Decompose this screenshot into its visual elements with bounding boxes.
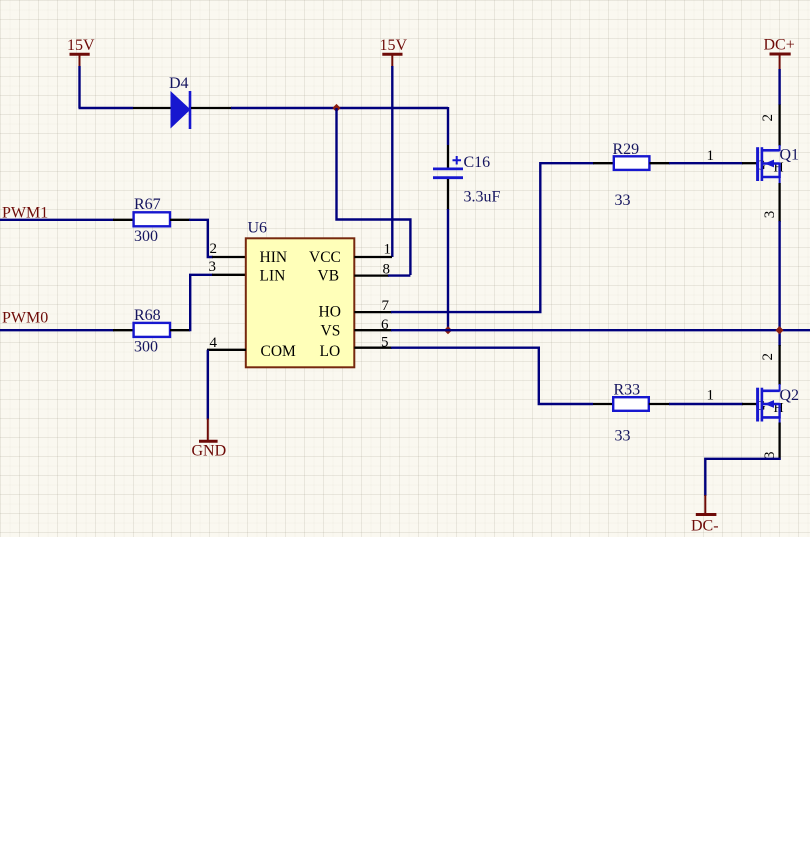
- wire 15V stem to top rail: [78, 66, 80, 108]
- wire Q2 drain stub: [779, 384, 781, 392]
- svg-text:6: 6: [381, 317, 389, 333]
- svg-text:2: 2: [760, 114, 776, 122]
- svg-text:2: 2: [210, 241, 218, 257]
- svg-text:4: 4: [210, 335, 218, 351]
- wire DC+ to Q1 drain pin: [778, 69, 780, 105]
- pin D4 cathode: [191, 107, 232, 109]
- pin R29 right: [649, 162, 670, 164]
- wire COM to GND: [207, 350, 209, 420]
- svg-text:300: 300: [134, 228, 158, 245]
- pin 6 VS: [354, 329, 392, 331]
- wire C16 to VS rail: [447, 209, 449, 330]
- wire Q2 source stub: [779, 417, 781, 423]
- pin R33 left: [593, 403, 614, 405]
- svg-text:3: 3: [762, 211, 778, 219]
- svg-text:LIN: LIN: [260, 268, 286, 285]
- svg-text:R33: R33: [614, 382, 641, 399]
- svg-text:D4: D4: [169, 75, 189, 92]
- svg-text:7: 7: [382, 298, 390, 314]
- wire Q1 source to VS rail: [778, 221, 780, 346]
- pin Q2 gate: [742, 403, 757, 405]
- svg-text:R67: R67: [134, 196, 161, 213]
- svg-text:8: 8: [383, 261, 391, 277]
- transistor Q1: [758, 147, 780, 181]
- pin R68 left: [113, 329, 134, 331]
- svg-text:Q1: Q1: [780, 147, 800, 164]
- svg-text:1: 1: [707, 148, 715, 164]
- diode D4: [171, 91, 191, 129]
- svg-text:5: 5: [381, 334, 389, 350]
- svg-text:VCC: VCC: [309, 249, 341, 266]
- resistor R33: [613, 397, 649, 411]
- svg-text:15V: 15V: [67, 37, 95, 54]
- pin 5 LO: [354, 347, 392, 349]
- wire Q1 source stub: [779, 177, 781, 184]
- pin 3 Q1 source: [778, 183, 780, 222]
- svg-text:300: 300: [134, 339, 158, 356]
- pin R67 left: [113, 219, 134, 221]
- wire top rail to C16 corner: [231, 107, 448, 109]
- wire R67 to HIN pin: [189, 220, 213, 257]
- svg-text:HIN: HIN: [260, 249, 288, 266]
- capacitor C16: [433, 156, 463, 178]
- pin C16 negative: [447, 179, 449, 210]
- svg-text:3.3uF: 3.3uF: [464, 189, 501, 206]
- wire PWM1 to R67: [0, 219, 114, 221]
- svg-text:2: 2: [760, 353, 776, 361]
- pin 4 COM: [207, 349, 246, 351]
- power 15V (left): [67, 37, 95, 67]
- svg-text:R68: R68: [134, 307, 161, 324]
- wire C16 top lead: [447, 107, 449, 145]
- junction node VB rail: [332, 104, 340, 112]
- pin 2 Q1 drain: [778, 105, 780, 147]
- wire Q1 drain stub: [779, 145, 781, 151]
- wire R33 to Q2 gate: [669, 403, 743, 405]
- pin 2 HIN: [212, 256, 246, 258]
- wire VB to corner: [388, 274, 410, 276]
- wire 15V to VCC pin 1: [391, 66, 393, 257]
- pin R29 left: [593, 162, 614, 164]
- pin R67 right: [170, 219, 190, 221]
- junction node VS/C16: [444, 326, 452, 334]
- wire Q2 source to DC-: [705, 459, 780, 496]
- junction node VS/phase: [775, 326, 783, 334]
- pin 8 VB: [354, 274, 389, 276]
- power DC-: [691, 495, 719, 535]
- pin D4 anode: [133, 107, 171, 109]
- svg-text:C16: C16: [464, 154, 491, 171]
- svg-text:COM: COM: [261, 343, 297, 360]
- wire top rail left of D4: [79, 107, 134, 109]
- transistor Q2: [758, 388, 780, 422]
- svg-text:R29: R29: [613, 141, 640, 158]
- pin Q1 gate: [742, 162, 757, 164]
- svg-text:HO: HO: [319, 304, 341, 321]
- wire PWM0 to R68: [0, 329, 114, 331]
- pin 7 HO: [354, 311, 392, 313]
- svg-text:VB: VB: [318, 268, 340, 285]
- IC U6 body: [246, 238, 354, 367]
- pin 3 Q2 source: [778, 423, 780, 460]
- svg-text:DC+: DC+: [764, 37, 795, 54]
- resistor R68: [134, 323, 170, 337]
- svg-text:15V: 15V: [380, 37, 408, 54]
- pin 3 LIN: [212, 274, 246, 276]
- svg-text:GND: GND: [192, 443, 227, 460]
- svg-text:1: 1: [707, 388, 715, 404]
- svg-text:PWM0: PWM0: [2, 310, 48, 327]
- wire VS rail to right edge: [391, 329, 810, 331]
- resistor R67: [134, 212, 170, 226]
- pin C16 positive: [447, 145, 449, 168]
- svg-text:LO: LO: [320, 343, 341, 360]
- power 15V (second): [380, 37, 408, 67]
- wire R29 to Q1 gate: [669, 162, 743, 164]
- svg-text:3: 3: [209, 259, 217, 275]
- pin R33 right: [649, 403, 670, 405]
- pin R68 right: [170, 329, 190, 331]
- resistor R29: [614, 156, 650, 170]
- pin 2 Q2 drain: [778, 345, 780, 385]
- svg-text:33: 33: [615, 192, 631, 209]
- svg-text:U6: U6: [248, 220, 268, 237]
- svg-text:Q2: Q2: [780, 387, 800, 404]
- svg-text:33: 33: [615, 428, 631, 445]
- power DC+: [764, 37, 795, 71]
- power GND: [192, 419, 227, 460]
- pin 1 VCC: [354, 256, 392, 258]
- wire LO to R33: [391, 348, 593, 404]
- svg-text:DC-: DC-: [691, 518, 719, 535]
- wire HO to R29: [391, 163, 594, 312]
- wire R68 to LIN pin: [190, 275, 213, 331]
- wire junction down to VB pin: [337, 108, 411, 275]
- svg-text:VS: VS: [321, 323, 341, 340]
- svg-text:1: 1: [384, 241, 392, 257]
